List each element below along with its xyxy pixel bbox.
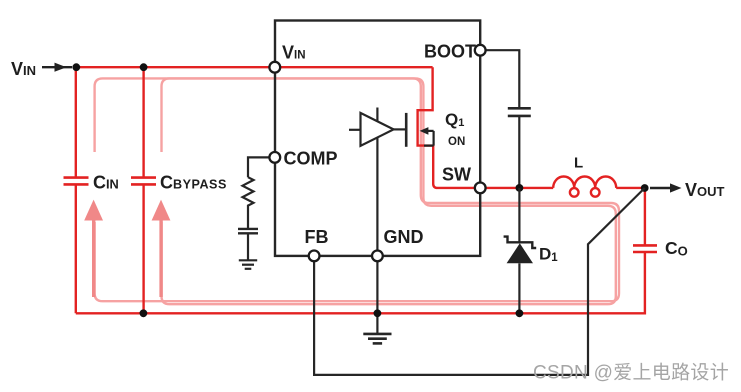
capacitor Co <box>633 245 657 252</box>
transistor Q1 gate bar <box>405 113 408 147</box>
transistor Q1 body arrow and source lead <box>420 127 434 146</box>
capacitor CIN <box>64 178 89 185</box>
wire GND pin down <box>376 261 378 334</box>
ground main <box>363 334 391 344</box>
label pin COMP <box>284 149 338 169</box>
wire red Co to bottom rail <box>76 252 645 313</box>
svg-text:FB: FB <box>305 227 329 247</box>
capacitor bootstrap <box>508 108 531 116</box>
pink arrow 2 (current direction through CBYPASS) <box>152 200 171 297</box>
pin SW circle <box>475 183 486 194</box>
pink current loop 2 (CBYPASS loop) <box>162 78 616 304</box>
label ON <box>448 136 465 148</box>
VIN input arrow <box>42 63 72 72</box>
wire red CBYPASS branch top <box>142 67 144 177</box>
node CBYPASS bottom junction dot <box>140 309 148 317</box>
pin BOOT circle <box>475 45 486 56</box>
pin COMP circle <box>269 152 280 163</box>
wire red inductor to VOUT node <box>616 187 645 189</box>
node input junction dot <box>72 63 80 71</box>
label D1 <box>539 245 558 265</box>
svg-text:GND: GND <box>384 227 424 247</box>
wire driver output to gate <box>392 128 405 130</box>
label VIN net <box>11 59 36 79</box>
wire COMP to compensation network <box>248 157 269 177</box>
svg-text:D1: D1 <box>539 245 558 265</box>
svg-text:ON: ON <box>448 136 465 148</box>
pink current loop 1 (CIN loop) <box>95 78 619 301</box>
label CBYPASS <box>160 173 227 193</box>
ground comp <box>239 260 257 269</box>
svg-text:VIN: VIN <box>11 59 36 79</box>
capacitor CBYPASS <box>131 178 156 185</box>
svg-text:VIN: VIN <box>282 43 306 63</box>
wire red Q1 channel path (staple) <box>418 67 475 188</box>
capacitor Ccomp <box>238 229 258 233</box>
label Co <box>665 238 688 259</box>
wire red SW to inductor <box>486 187 554 189</box>
label VOUT <box>685 180 725 200</box>
svg-text:SW: SW <box>442 165 471 185</box>
label L <box>574 155 583 172</box>
wire driver vertical to GND pin <box>376 108 378 251</box>
wire bootstrap cap to SW node <box>518 116 520 188</box>
svg-text:Q1: Q1 <box>445 110 464 129</box>
label CIN <box>93 173 119 193</box>
wire red bottom rail up to CIN <box>75 184 77 313</box>
VOUT output arrow <box>650 183 682 192</box>
svg-text:CIN: CIN <box>93 173 119 193</box>
wire driver input stub <box>349 129 361 131</box>
label pin SW <box>442 165 471 185</box>
pink arrow 1 (current direction through CIN) <box>84 200 103 297</box>
label pin GND <box>384 227 424 247</box>
wire red CBYPASS bottom to bottom rail <box>142 184 144 313</box>
wire Ccomp to ground <box>247 233 249 260</box>
wire red top rail VIN <box>76 66 432 68</box>
node VOUT junction dot <box>641 184 649 192</box>
pin VIN circle <box>269 62 280 73</box>
inductor L <box>553 177 616 197</box>
svg-text:COMP: COMP <box>284 149 338 169</box>
wire BOOT to bootstrap cap <box>486 50 520 108</box>
op-amp driver triangle <box>361 113 394 146</box>
wire D1 anode to bottom rail <box>518 263 520 313</box>
wire red VOUT node down to Co <box>644 188 646 245</box>
node D1 bottom junction dot <box>516 309 524 317</box>
svg-text:CSDN @爱上电路设计: CSDN @爱上电路设计 <box>533 362 729 384</box>
watermark CSDN <box>533 362 729 384</box>
pin GND circle <box>372 251 383 262</box>
op-amp U1 IC box <box>275 21 480 256</box>
label pin FB <box>305 227 329 247</box>
svg-text:CBYPASS: CBYPASS <box>160 173 227 193</box>
label Q1 <box>445 110 464 129</box>
svg-text:CO: CO <box>665 238 688 259</box>
diode D1 (Schottky) <box>504 237 537 264</box>
node GND junction dot on bottom rail <box>374 309 382 317</box>
svg-text:BOOT: BOOT <box>424 42 476 62</box>
node CBYPASS top junction dot <box>140 63 148 71</box>
wire feedback from VOUT to FB <box>314 188 645 375</box>
wire red CIN top to input node <box>75 67 77 177</box>
label pin BOOT <box>424 42 476 62</box>
pin FB circle <box>309 251 320 262</box>
svg-text:L: L <box>574 155 583 172</box>
label pin VIN <box>282 43 306 63</box>
wire SW node to D1 <box>518 188 520 242</box>
node SW junction dot <box>516 184 524 192</box>
svg-text:VOUT: VOUT <box>685 180 725 200</box>
resistor Rcomp <box>243 177 254 229</box>
